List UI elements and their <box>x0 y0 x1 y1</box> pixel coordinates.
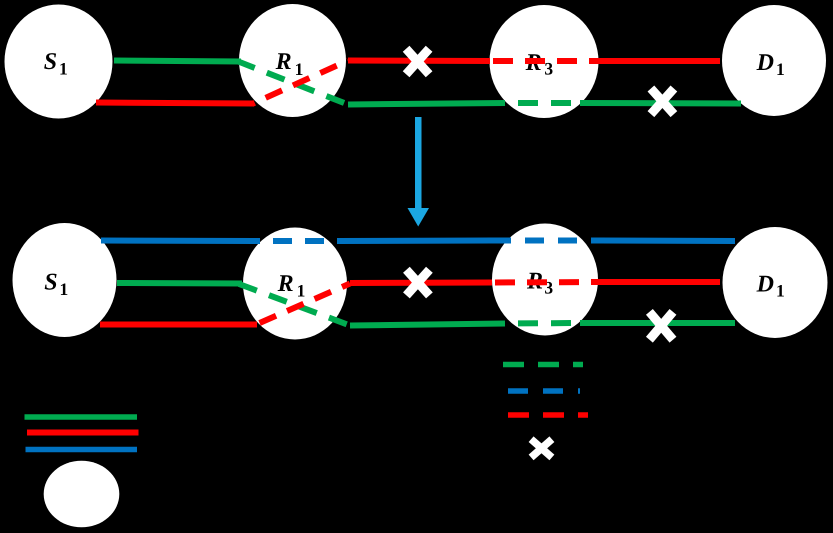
wire green dashed crossover inside R1 (bottom row) <box>239 284 350 326</box>
node R1 (top row) <box>239 4 346 117</box>
transition arrow (light blue, downward) <box>408 117 430 227</box>
svg-text:3: 3 <box>544 59 553 79</box>
legend solid blue line <box>26 447 138 453</box>
svg-text:R: R <box>277 271 294 297</box>
node R3 (bottom row) <box>492 224 598 336</box>
svg-text:R: R <box>275 49 292 75</box>
failure X on green link R3-D1 (bottom row) <box>649 312 673 340</box>
wire red R3-D1 (top row) <box>598 58 720 64</box>
wire red R3-D1 (bottom row) <box>600 279 720 285</box>
legend dashed red line <box>508 412 588 418</box>
wire blue dashed across R1 (bottom row) <box>254 238 340 244</box>
svg-text:D: D <box>756 50 774 76</box>
wire green S1-R1 (bottom row) <box>117 280 242 287</box>
legend failure X <box>531 439 552 457</box>
wire green R3-D1 (top row, under failure X) <box>580 100 741 107</box>
failure X on green link R3-D1 (top row) <box>651 89 674 115</box>
wire green R1-R3 (top row) <box>348 103 505 105</box>
wire red S1-R1 (bottom row) <box>100 322 257 328</box>
wire red R1-R3 (top row, under failure X) <box>348 58 490 65</box>
wire green dashed across R3 (bottom row) <box>505 320 580 327</box>
wire red R1-R3 (bottom row, under failure X) <box>350 280 492 287</box>
wire red dashed crossover inside R1 (bottom row) <box>255 284 350 326</box>
legend solid green line <box>25 414 138 420</box>
wire blue R1-R3 (bottom row) <box>340 238 492 245</box>
wire green S1-R1 (top row) <box>114 61 241 62</box>
wire green dashed crossover inside R1 (top row) <box>237 61 348 105</box>
svg-text:1: 1 <box>776 59 785 79</box>
legend solid red line <box>27 430 139 436</box>
svg-text:S: S <box>44 49 57 75</box>
wire red dashed across R3 (bottom row) <box>492 279 600 286</box>
wire green dashed across R3 (top row) <box>505 100 580 106</box>
node R3 (top row) <box>490 5 599 118</box>
wire green R3-D1 (bottom row, under failure X) <box>580 320 735 326</box>
node S1 (bottom row) <box>13 223 117 337</box>
wire blue S1-R1 (bottom row) <box>101 238 254 245</box>
node D1 (top row) <box>722 5 826 116</box>
wire red S1-R1 (top row) <box>96 103 253 104</box>
legend dashed green line <box>503 362 583 368</box>
legend dashed blue line <box>508 388 580 394</box>
svg-text:1: 1 <box>297 280 306 300</box>
legend node circle <box>44 461 120 528</box>
node S1 (top row) <box>5 5 113 119</box>
node D1 (bottom row) <box>723 227 828 338</box>
svg-text:D: D <box>756 272 774 298</box>
svg-text:1: 1 <box>59 59 68 79</box>
wire red dashed across R3 (top row) <box>490 58 598 64</box>
node R1 (bottom row) <box>243 228 347 340</box>
wire blue dashed across R3 (bottom row) <box>492 238 600 244</box>
wire green R1-R3 (bottom row) <box>350 324 505 326</box>
svg-text:1: 1 <box>295 59 304 79</box>
svg-text:1: 1 <box>60 279 69 299</box>
svg-text:1: 1 <box>776 281 785 301</box>
failure X on red link R1-R3 (top row) <box>406 49 429 75</box>
svg-text:S: S <box>44 269 57 295</box>
wire red dashed crossover inside R1 (top row) <box>252 61 348 105</box>
failure X on red link R1-R3 (bottom row) <box>406 270 429 296</box>
wire blue R3-D1 (bottom row) <box>600 238 735 245</box>
